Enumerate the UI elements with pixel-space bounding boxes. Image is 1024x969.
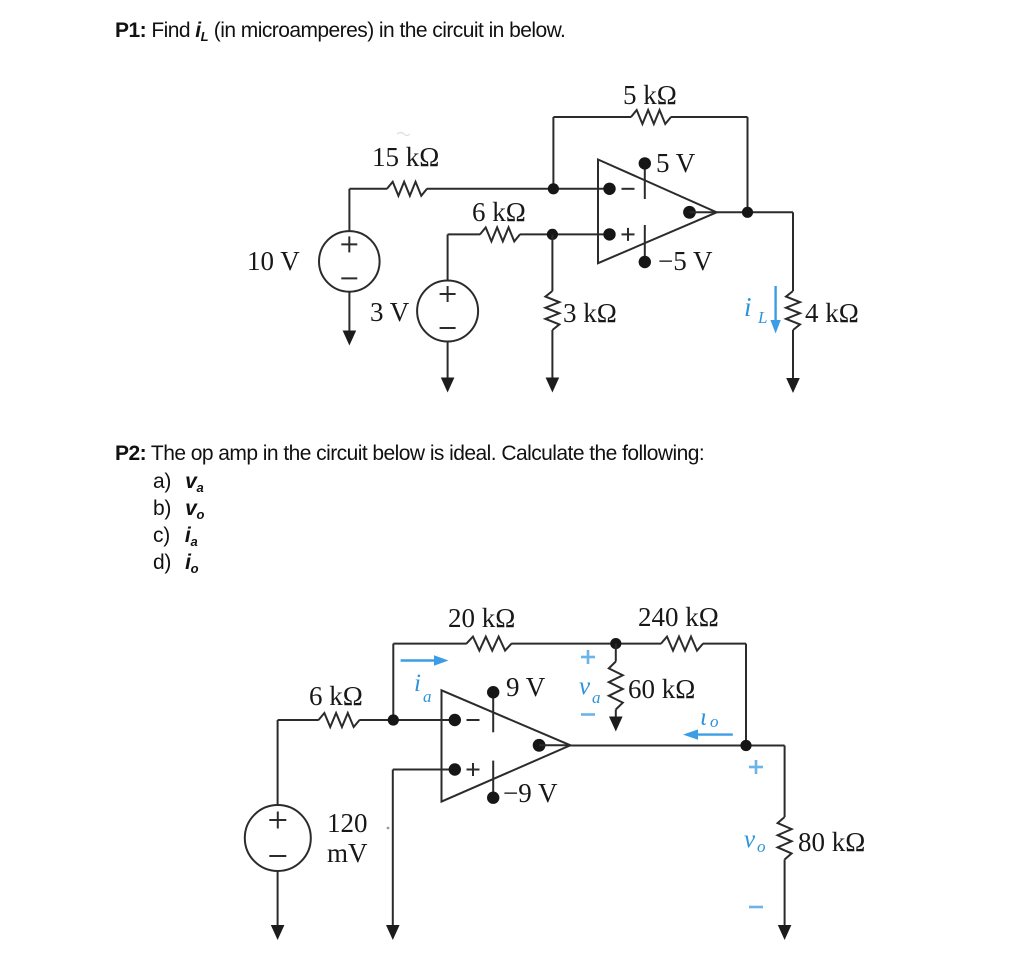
wire: P2 output horizontal	[570, 745, 784, 747]
resistor R 240k zigzag	[661, 637, 703, 651]
svg-text:6 kΩ: 6 kΩ	[309, 681, 363, 711]
minus sign at inverting input	[622, 188, 635, 190]
wire: 60k resistor top lead	[615, 644, 617, 662]
wire: 4k resistor top lead	[792, 212, 794, 291]
plus sign at U2 non-inverting input	[467, 763, 480, 776]
svg-text:3 V: 3 V	[370, 297, 410, 327]
wire: U2 output dot to vertex	[539, 744, 570, 746]
op-amp U1 negative supply line	[644, 225, 646, 262]
wire: non-inverting input horizontal	[393, 769, 455, 771]
resistor R 60k zigzag	[609, 662, 623, 710]
wire: P1 output horizontal	[717, 211, 793, 213]
op-amp U2 positive supply line	[492, 692, 494, 732]
svg-text:o: o	[757, 837, 766, 856]
wire: P2 right vertical from 240k	[745, 644, 747, 746]
svg-text:a: a	[592, 688, 601, 707]
pin dot: -5V supply	[639, 256, 651, 268]
svg-text:9 V: 9 V	[506, 672, 546, 702]
pin dot: -9V supply	[487, 792, 499, 804]
svg-text:a: a	[423, 687, 432, 706]
ground arrow below 80k resistor	[778, 860, 792, 941]
wire: 3V source top lead	[447, 234, 449, 280]
pin dot: U2 non-inverting input	[449, 763, 461, 775]
node C: output node dot	[742, 207, 753, 218]
node D: top node dot (60k/240k)	[610, 638, 621, 649]
resistor RL 4k zigzag	[786, 291, 800, 330]
op-amp U1 positive supply line	[644, 163, 646, 199]
P2 item b	[153, 497, 204, 522]
wire: P1 input horizontal to inverting input	[349, 188, 610, 190]
svg-text:−9 V: −9 V	[503, 778, 558, 808]
voltage source circle 3V	[417, 281, 478, 342]
voltage source circle 10V	[319, 231, 380, 292]
node F: output node dot	[740, 740, 751, 751]
wire: 120mV source top lead	[277, 720, 279, 805]
node E: inverting node dot	[388, 714, 399, 725]
svg-text:80 kΩ: 80 kΩ	[798, 827, 865, 857]
va plus sign (blue)	[581, 650, 595, 664]
svg-text:240 kΩ: 240 kΩ	[638, 602, 719, 632]
pin dot: U2 output	[533, 739, 546, 752]
ground arrow below 60k resistor	[609, 710, 623, 732]
ground arrow below non-inverting lead	[386, 770, 400, 941]
pin dot: +9V supply	[487, 686, 499, 698]
svg-text:mV: mV	[327, 838, 368, 868]
ground arrow below 120mV source	[271, 871, 285, 940]
va minus sign (blue)	[581, 713, 595, 716]
wire: 80k resistor top lead	[784, 746, 786, 818]
svg-text:120: 120	[327, 808, 368, 838]
svg-text:10 V: 10 V	[247, 246, 300, 276]
resistor Rf 20k zigzag	[467, 637, 512, 651]
node A: inverting node dot	[548, 183, 559, 194]
pin dot: U2 inverting input	[449, 714, 461, 726]
svg-text:v: v	[744, 826, 756, 853]
svg-text:6 kΩ: 6 kΩ	[472, 197, 526, 227]
P2 item d	[153, 551, 199, 576]
voltage source circle 120mV	[245, 805, 311, 871]
wire: 3k resistor top lead	[551, 234, 553, 291]
resistor R feedback 5k zigzag	[631, 110, 671, 124]
svg-text:i: i	[744, 292, 752, 322]
op-amp U2 negative supply line	[492, 761, 494, 798]
iL current arrow (blue)	[770, 286, 780, 334]
P2 problem statement	[115, 442, 704, 466]
svg-text:15 kΩ: 15 kΩ	[372, 142, 439, 172]
pin dot: inverting input	[603, 183, 615, 195]
resistor Rs 6k zigzag	[319, 713, 360, 727]
tiny speck artifact	[387, 827, 390, 830]
resistor R3 3k zigzag	[545, 291, 559, 330]
pin dot: +5V supply	[639, 157, 651, 169]
svg-text:4 kΩ: 4 kΩ	[805, 298, 859, 328]
svg-text:20 kΩ: 20 kΩ	[448, 603, 515, 633]
wire: output dot to vertex	[690, 211, 717, 213]
node B: non-inverting node dot	[547, 229, 558, 240]
svg-text:o: o	[710, 712, 719, 731]
faint scan artifact	[397, 133, 410, 136]
svg-text:60 kΩ: 60 kΩ	[628, 674, 695, 704]
ground arrow below 3k resistor	[546, 330, 560, 393]
svg-text:5 kΩ: 5 kΩ	[623, 80, 677, 110]
P2 item c	[153, 524, 198, 549]
P1 problem statement	[115, 19, 565, 44]
P2 item a	[153, 470, 204, 495]
pin dot: op-amp output	[683, 206, 696, 219]
wire: P2 input horizontal to inverting input	[278, 719, 455, 721]
op-amp U1 triangle	[598, 160, 717, 264]
vo minus sign (blue)	[749, 906, 763, 909]
wire: P2 feedback left vertical	[392, 644, 394, 720]
svg-text:ι: ι	[700, 704, 707, 731]
wire: P2 feedback top horizontal	[393, 643, 746, 645]
wire: P1 feedback top horizontal	[553, 116, 747, 118]
resistor Ro 80k zigzag	[778, 817, 792, 859]
ia current arrow (blue)	[401, 655, 449, 665]
svg-text:v: v	[579, 673, 591, 700]
resistor R1 15k zigzag	[387, 182, 427, 196]
io current arrow (blue)	[683, 729, 733, 739]
resistor R2 6k zigzag	[480, 227, 520, 241]
svg-text:3 kΩ: 3 kΩ	[563, 298, 617, 328]
plus sign at non-inverting input	[622, 228, 635, 241]
vo plus sign (blue)	[749, 760, 763, 774]
svg-text:L: L	[757, 308, 767, 327]
op-amp U2 triangle	[442, 690, 571, 801]
pin dot: non-inverting input	[603, 228, 615, 240]
wire: P1 6k horizontal to non-inverting input	[448, 233, 610, 235]
wire: P1 feedback right vertical	[747, 117, 749, 212]
ground arrow below 10V source	[343, 292, 357, 346]
svg-text:−5 V: −5 V	[658, 246, 713, 276]
ground arrow below 4k resistor	[786, 330, 800, 393]
ground arrow below 3V source	[441, 342, 455, 393]
minus sign at U2 inverting input	[467, 719, 480, 721]
svg-text:5 V: 5 V	[656, 148, 696, 178]
wire: P1 feedback left vertical	[552, 117, 554, 189]
svg-text:i: i	[414, 670, 421, 697]
wire: 10V source top lead	[348, 189, 350, 231]
